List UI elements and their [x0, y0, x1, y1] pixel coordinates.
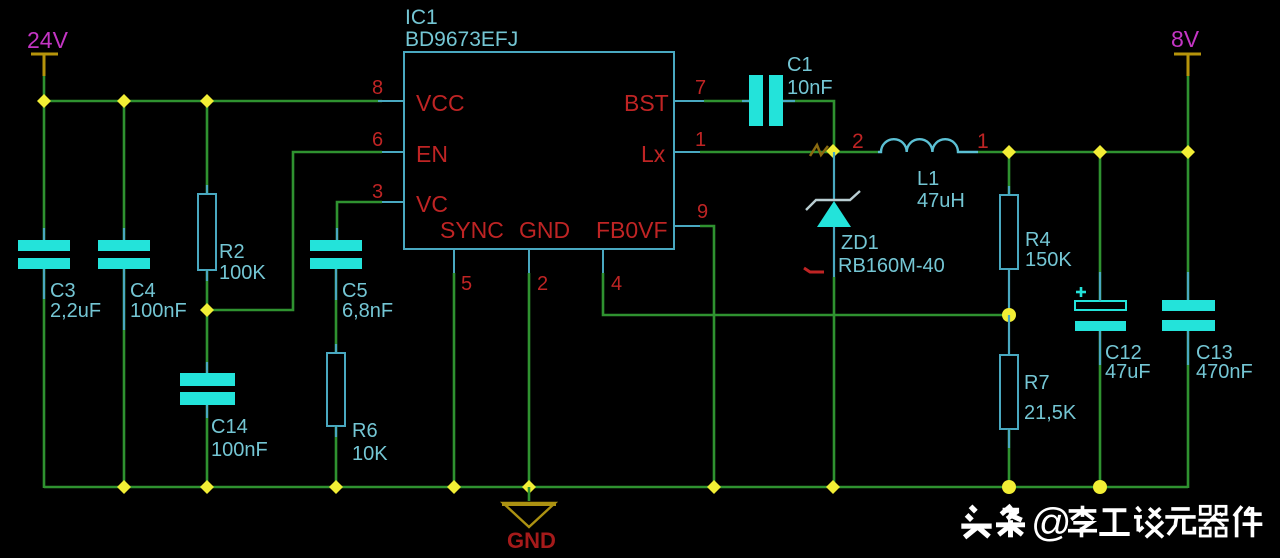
wire R4 lower	[1008, 269, 1010, 315]
svg-text:24V: 24V	[27, 27, 69, 53]
svg-text:GND: GND	[507, 528, 556, 553]
wire L1 to output rail	[978, 151, 1009, 154]
svg-text:C5: C5	[342, 280, 368, 302]
wire EN net	[207, 152, 382, 310]
wire ZD1 lower	[833, 227, 835, 277]
power symbol 8V	[1174, 54, 1201, 76]
svg-text:GND: GND	[519, 217, 570, 243]
svg-text:150K: 150K	[1025, 249, 1072, 271]
node junctions bottom rail	[117, 480, 131, 494]
svg-text:1: 1	[695, 129, 706, 151]
svg-text:C4: C4	[130, 280, 156, 302]
wire C3 upper	[43, 101, 46, 240]
wire C3 lower	[43, 269, 46, 488]
svg-text:C14: C14	[211, 416, 248, 438]
char jian	[1234, 506, 1262, 537]
diode ZD1	[806, 191, 860, 227]
svg-text:6: 6	[372, 129, 383, 151]
wire FB net	[603, 273, 1009, 315]
svg-text:5: 5	[461, 273, 472, 295]
wire R7 lower	[1008, 429, 1011, 487]
svg-text:EN: EN	[416, 141, 448, 167]
svg-text:6,8nF: 6,8nF	[342, 300, 393, 322]
svg-text:R6: R6	[352, 420, 378, 442]
wire stubs cyan near caps	[44, 101, 1188, 448]
svg-text:IC1: IC1	[405, 6, 438, 29]
wire top rail 24V net	[44, 100, 382, 103]
capacitor C14	[180, 373, 235, 386]
node junctions top rail	[37, 94, 51, 108]
wire output rail 8V net	[1009, 151, 1188, 154]
wire bottom rail	[44, 486, 1188, 489]
pin marker 2 squiggle	[810, 145, 828, 156]
svg-text:2: 2	[537, 273, 548, 295]
wire C12 lower	[1099, 331, 1102, 487]
resistor R2	[198, 194, 216, 270]
wire GND pin2 down	[528, 273, 531, 487]
wire 8V stem	[1187, 74, 1190, 152]
svg-text:8V: 8V	[1171, 26, 1200, 52]
capacitor C5	[310, 240, 362, 251]
wire C1 to Lx node	[783, 101, 834, 151]
wire R7 upper	[1008, 315, 1010, 355]
svg-text:100nF: 100nF	[130, 300, 187, 322]
wire R6 lower	[335, 426, 338, 487]
wire C4 lower	[123, 269, 126, 487]
node FB junction	[1002, 308, 1016, 322]
svg-text:FB0VF: FB0VF	[596, 217, 668, 243]
node junction R2 bottom	[200, 303, 214, 317]
wire Lx net	[700, 151, 878, 154]
wire R2 lower	[206, 270, 209, 310]
svg-text:470nF: 470nF	[1196, 361, 1253, 383]
pin stubs	[378, 101, 704, 273]
svg-text:8: 8	[372, 77, 383, 99]
wire C4 upper	[123, 101, 126, 240]
svg-text:VC: VC	[416, 191, 448, 217]
wire SYNC pin5 down	[453, 273, 456, 487]
svg-text:C1: C1	[787, 54, 813, 76]
svg-text:21,5K: 21,5K	[1024, 402, 1077, 424]
pin marker 1	[804, 268, 824, 272]
inductor L1	[878, 139, 978, 152]
svg-text:4: 4	[611, 273, 622, 295]
power symbol 24V	[31, 54, 58, 76]
svg-text:47uF: 47uF	[1105, 361, 1151, 383]
wire C14 lower	[206, 405, 209, 487]
wire C13 vertical	[1187, 152, 1190, 300]
svg-text:L1: L1	[917, 168, 939, 190]
svg-text:SYNC: SYNC	[440, 217, 504, 243]
svg-text:7: 7	[695, 77, 706, 99]
op-amp IC1 box	[404, 52, 674, 249]
svg-text:9: 9	[697, 201, 708, 223]
svg-text:RB160M-40: RB160M-40	[838, 255, 945, 277]
wire 24V stem green	[43, 74, 46, 101]
svg-text:Lx: Lx	[641, 141, 666, 167]
resistor R7	[1000, 355, 1018, 429]
svg-text:100K: 100K	[219, 262, 266, 284]
wire VC net	[337, 202, 382, 240]
resistor R4	[1000, 195, 1018, 269]
wire pin9 down	[700, 226, 714, 487]
wire C12 upper	[1099, 152, 1102, 301]
wire R2 upper	[206, 101, 209, 194]
svg-text:1: 1	[977, 130, 989, 153]
char yuan	[1165, 509, 1195, 535]
svg-text:47uH: 47uH	[917, 190, 965, 212]
svg-text:@: @	[1031, 501, 1072, 545]
capacitor C4	[98, 240, 150, 251]
wire C5 to R6	[335, 269, 338, 353]
watermark	[961, 506, 1025, 538]
char li	[1068, 506, 1097, 538]
wire R4 upper	[1008, 152, 1011, 195]
svg-text:2,2uF: 2,2uF	[50, 300, 101, 322]
svg-text:BST: BST	[624, 90, 669, 116]
svg-text:R2: R2	[219, 241, 245, 263]
pin numbers	[372, 77, 708, 295]
wire C14 upper	[206, 310, 209, 373]
svg-text:R7: R7	[1024, 372, 1050, 394]
resistor R6	[327, 353, 345, 426]
svg-text:R4: R4	[1025, 229, 1051, 251]
svg-text:10K: 10K	[352, 443, 388, 465]
node junctions output rail	[1002, 145, 1016, 159]
svg-text:VCC: VCC	[416, 90, 465, 116]
node Lx junction	[826, 144, 840, 158]
wire BST to C1	[704, 100, 749, 103]
char tiao	[996, 506, 1025, 538]
svg-text:C3: C3	[50, 280, 76, 302]
svg-text:ZD1: ZD1	[841, 232, 879, 254]
svg-text:2: 2	[852, 130, 864, 153]
char qi	[1198, 506, 1228, 536]
svg-text:BD9673EFJ: BD9673EFJ	[405, 28, 518, 51]
svg-text:10nF: 10nF	[787, 77, 833, 99]
ground symbol	[528, 487, 531, 501]
capacitor C3	[18, 240, 70, 251]
pin names	[416, 90, 669, 243]
char tan	[1134, 507, 1163, 537]
char gong	[1099, 510, 1129, 534]
char tou	[961, 506, 991, 537]
capacitor C1	[749, 75, 763, 126]
svg-text:100nF: 100nF	[211, 439, 268, 461]
capacitor C13	[1162, 300, 1215, 311]
capacitor C12 polarized	[1075, 287, 1126, 331]
wire ZD1 upper	[833, 152, 835, 200]
svg-text:3: 3	[372, 181, 383, 203]
